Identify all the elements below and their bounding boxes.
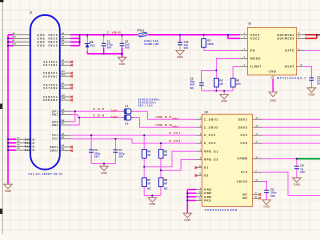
inductor L1 ferrite bead <box>124 109 131 114</box>
ground symbol U2 GND bus <box>183 213 191 218</box>
svg-text:C_VBUS: C_VBUS <box>107 31 121 35</box>
wire VCC2 branch <box>228 35 240 39</box>
svg-text:C_SBU2: C_SBU2 <box>204 125 218 129</box>
svg-text:USB_D_N: USB_D_N <box>156 123 173 127</box>
svg-text:PTC1: PTC1 <box>138 29 145 33</box>
resistor R5 <box>159 149 163 158</box>
junction dots DP DN <box>74 110 76 112</box>
svg-text:50V: 50V <box>119 154 124 158</box>
ground symbol under C6 C7 <box>100 166 108 171</box>
svg-text:GND: GND <box>263 204 269 208</box>
diode D1 zener <box>85 43 89 48</box>
wire C_CC1 <box>71 134 197 136</box>
svg-text:SBU2: SBU2 <box>50 151 59 153</box>
sheet border left <box>2 0 4 234</box>
svg-text:GND: GND <box>119 62 125 66</box>
svg-text:0.110R / 16V: 0.110R / 16V <box>144 42 159 46</box>
pin leads U2 left <box>196 119 202 175</box>
no-ERC x SSRXN2 <box>71 99 73 101</box>
svg-text:C_D_N: C_D_N <box>93 114 105 118</box>
wire GND bus left vertical <box>7 35 9 184</box>
svg-text:VPWR: VPWR <box>237 157 248 161</box>
wire DP2 riser <box>71 111 76 122</box>
wire SBU2 out <box>262 126 320 128</box>
connector J1 body <box>30 15 60 170</box>
wire Shield pin stubs J1 bottom-left <box>8 139 16 150</box>
svg-text:CC1: CC1 <box>241 133 248 137</box>
junction dots shield bus <box>7 138 9 140</box>
wire VPWR <box>262 158 297 160</box>
pin leads U1 right <box>297 35 305 67</box>
svg-text:50V: 50V <box>107 46 112 50</box>
svg-text:GND: GND <box>37 39 45 41</box>
pin lead U1 GND bottom <box>272 75 274 79</box>
svg-text:RPD_G2: RPD_G2 <box>204 157 219 161</box>
wire VBUS rail to PTC1 <box>71 34 138 36</box>
ground symbol shield bus <box>4 184 12 189</box>
svg-text:GND: GND <box>308 92 314 96</box>
svg-text:PAD: PAD <box>204 198 211 202</box>
svg-text:GND: GND <box>37 35 45 37</box>
wire CC2 out <box>262 142 320 144</box>
svg-text:600R@100MHz: 600R@100MHz <box>138 99 160 101</box>
diff pair marker USB_D_N <box>173 126 179 127</box>
pin leads U2 bottom-left GND PAD <box>196 190 202 201</box>
wire GND pin stubs J1 top-left <box>8 35 13 46</box>
svg-text:SSRXP1: SSRXP1 <box>43 73 58 75</box>
svg-text:DN2: DN2 <box>52 125 58 127</box>
ground symbol under C8 <box>293 178 301 183</box>
pin leads J1 SSTX2 SSRX2 pins <box>60 85 71 100</box>
wire C_D_N from DN1 through L2 <box>71 115 197 128</box>
svg-text:GND: GND <box>294 182 300 186</box>
svg-text:SSRXP2: SSRXP2 <box>43 97 58 99</box>
svg-text:CC1: CC1 <box>52 135 58 137</box>
wire GATE out <box>305 50 320 52</box>
wire C7 leads <box>115 139 117 164</box>
svg-text:0R: 0R <box>164 181 167 185</box>
svg-text:VBUS: VBUS <box>48 42 58 44</box>
junction dot R7 R8 gnd <box>151 195 153 197</box>
junction dot VPWR <box>296 158 298 160</box>
junction dots GND bus <box>7 37 9 39</box>
svg-text:GATE: GATE <box>285 49 295 53</box>
svg-text:SOURCE2: SOURCE2 <box>277 36 294 40</box>
svg-text:SSRXN2: SSRXN2 <box>43 100 58 102</box>
svg-text:DP2: DP2 <box>52 122 58 124</box>
svg-text:RPD_G1: RPD_G1 <box>204 149 219 153</box>
pin leads U1 left <box>240 35 248 67</box>
resistor R7 <box>142 178 146 187</box>
svg-text:D1: D1 <box>204 166 209 170</box>
svg-text:GND: GND <box>269 70 277 74</box>
pin leads J1 left GND pins <box>13 35 30 46</box>
capacitor C8 <box>294 166 299 168</box>
inductor L2 ferrite bead <box>124 115 131 120</box>
pin leads J1 right VBUS pins <box>60 35 71 46</box>
wire SBU1 out <box>262 118 320 120</box>
wire FLT route <box>262 172 320 195</box>
fuse PTC1 <box>137 32 148 37</box>
capacitor C5 <box>199 83 204 85</box>
svg-text:USB_D_P: USB_D_P <box>156 115 172 119</box>
svg-text:FLT: FLT <box>241 170 248 174</box>
wire C_CC2 <box>71 139 197 143</box>
svg-text:C_CC2: C_CC2 <box>204 141 216 145</box>
wire VBUS rail PTC1 to U1 VCC1 <box>148 34 240 36</box>
svg-text:NC: NC <box>190 86 194 90</box>
wire RPD_G1 <box>144 151 196 167</box>
junction dots VBUS tie <box>79 34 81 36</box>
svg-text:CC2: CC2 <box>241 141 248 145</box>
svg-text:VBUS: VBUS <box>48 35 58 37</box>
no-ERC x SSTXP1 <box>71 61 73 63</box>
pin leads L2 <box>121 117 134 119</box>
capacitor C1 <box>101 43 106 45</box>
svg-text:NC: NC <box>243 196 248 200</box>
svg-text:C_D_P: C_D_P <box>93 107 105 111</box>
svg-text:C_SBU1: C_SBU1 <box>204 117 218 121</box>
diff pair marker C_D_N <box>112 116 118 117</box>
svg-text:DN1: DN1 <box>52 115 58 117</box>
svg-text:300R@2GHz: 300R@2GHz <box>138 102 157 104</box>
ground symbol under C13 <box>176 50 184 55</box>
wire C_D_P from DP1 through L1 <box>71 111 197 119</box>
junction dots R2 R3 net <box>215 69 217 71</box>
no-ERC x SSTXN2 <box>71 87 73 89</box>
wire R8 leads <box>160 170 162 195</box>
wire R1 leads <box>203 35 205 51</box>
svg-text:SSTXP1: SSTXP1 <box>43 62 58 64</box>
wire C5 branch <box>202 70 217 90</box>
wire DN2 riser <box>71 118 80 125</box>
svg-text:DP1: DP1 <box>52 111 58 113</box>
no-ERC x SSRXP2 <box>71 96 73 98</box>
svg-text:C_CC1: C_CC1 <box>169 131 181 135</box>
svg-text:GND: GND <box>270 98 276 102</box>
wire R2 R3 bottoms to GND rail <box>202 87 234 94</box>
svg-text:VBUS: VBUS <box>48 39 58 41</box>
no-ERC x SSTXP2 <box>71 84 73 86</box>
svg-text:GND: GND <box>101 171 107 175</box>
wire C1 leads <box>103 35 105 37</box>
svg-text:50V: 50V <box>125 46 130 50</box>
svg-text:SBU1: SBU1 <box>238 117 248 121</box>
wire R1 to EN <box>204 49 240 51</box>
svg-text:EN: EN <box>250 48 255 52</box>
svg-text:SBU2: SBU2 <box>238 125 248 129</box>
wire R4 leads <box>143 135 145 167</box>
svg-text:GND: GND <box>184 218 190 222</box>
svg-text:SSTXN2: SSTXN2 <box>43 88 58 90</box>
svg-text:GND: GND <box>177 55 183 59</box>
svg-text:SBU1: SBU1 <box>50 147 59 149</box>
junction dot SOURCE red <box>316 34 318 36</box>
op-amp U2 body (port protector) <box>202 114 253 206</box>
wire R7 leads <box>143 167 145 196</box>
capacitor C2 <box>120 43 125 45</box>
svg-text:U1: U1 <box>248 22 252 26</box>
svg-text:GND: GND <box>5 189 11 193</box>
wire GND rail under D1 C1 C2 <box>87 54 122 57</box>
pin leads J1 CC SBU pins <box>60 135 71 150</box>
svg-text:MODE: MODE <box>250 56 261 60</box>
svg-text:0.75A / 1.5A: 0.75A / 1.5A <box>144 39 159 43</box>
ground symbol under R7 R8 <box>148 198 156 203</box>
svg-text:VCC2: VCC2 <box>250 36 260 40</box>
junction dots VBUS rail <box>86 34 88 36</box>
svg-text:50V: 50V <box>271 194 276 198</box>
op-amp U1 body (load switch) <box>248 28 297 76</box>
wire RPD_G2 <box>161 159 196 170</box>
no-ERC x U2 D1 <box>195 166 197 168</box>
svg-text:C_CC1: C_CC1 <box>204 133 216 137</box>
svg-text:TPD6S300ARUKR: TPD6S300ARUKR <box>205 209 238 212</box>
svg-text:0R: 0R <box>220 82 223 86</box>
wire R5 leads <box>160 143 162 170</box>
no-ERC x SSTXN1 <box>71 64 73 66</box>
pin leads J1 SSTX1 SSRX1 pins <box>60 62 71 76</box>
wire VBIAS to C9 <box>262 182 267 200</box>
no-ERC x SSRXP1 <box>71 72 73 74</box>
resistor R2 <box>214 78 218 87</box>
svg-text:50V: 50V <box>94 154 99 158</box>
svg-text:VBIAS: VBIAS <box>236 180 247 184</box>
wire C2 leads <box>121 35 123 37</box>
wire VPWR green out <box>297 158 320 160</box>
svg-text:GND: GND <box>37 46 45 48</box>
capacitor C13 <box>178 42 183 44</box>
svg-text:Shield: Shield <box>25 143 35 145</box>
wire MODE to R2 <box>216 58 240 78</box>
diff pair marker C_D_P <box>112 110 118 111</box>
svg-text:NC: NC <box>147 186 151 190</box>
svg-text:SSRXN1: SSRXN1 <box>43 76 58 78</box>
svg-text:6V5: 6V5 <box>90 44 95 48</box>
wire GND rail under C6 C7 <box>91 164 115 167</box>
wire DVDT to C3 <box>303 66 312 87</box>
capacitor C3 <box>309 78 314 80</box>
no-ERC x U2 NC1 <box>259 193 261 195</box>
svg-text:NC: NC <box>164 186 168 190</box>
svg-text:ILIMIT: ILIMIT <box>250 64 261 68</box>
wire U2 GND bus <box>187 190 196 214</box>
resistor R1 <box>202 39 206 48</box>
diff pair marker USB_D_P <box>173 118 179 119</box>
svg-text:SSTXP2: SSTXP2 <box>43 85 58 87</box>
resistor R4 <box>142 149 146 158</box>
svg-text:0R: 0R <box>147 181 150 185</box>
svg-text:0R: 0R <box>164 153 167 157</box>
capacitor C9 <box>264 190 269 192</box>
svg-text:GND: GND <box>149 202 155 206</box>
wire CC1 out <box>262 134 320 136</box>
no-ERC x SBU1 <box>71 146 73 148</box>
pin leads L1 <box>121 110 134 112</box>
svg-text:CC2: CC2 <box>52 139 58 141</box>
junction dots U2 gnd bus <box>186 192 188 194</box>
ground symbol under C2 <box>118 57 126 62</box>
wire C6 leads <box>90 135 92 163</box>
ground symbol under R2 R3 <box>220 94 228 99</box>
capacitor C6 <box>89 150 94 152</box>
ground symbol U1 GND pin <box>269 92 277 97</box>
svg-text:GND: GND <box>221 99 227 103</box>
wire GND rail under R7 R8 <box>144 196 161 198</box>
svg-text:U01-GF-16PMT-TR-67: U01-GF-16PMT-TR-67 <box>29 173 64 176</box>
svg-text:D2: D2 <box>204 174 209 178</box>
resistor R8 <box>159 178 163 187</box>
wire SOURCE1 SOURCE2 red <box>305 35 320 39</box>
svg-text:DVDT: DVDT <box>285 64 295 68</box>
junction dots RPD taps <box>143 166 145 168</box>
svg-text:25V: 25V <box>300 170 305 174</box>
resistor R3 <box>231 78 235 87</box>
junction dots C6 C7 gnd <box>103 163 105 165</box>
svg-text:1K5: 1K5 <box>236 82 241 86</box>
svg-text:MP5019HGQH-Z: MP5019HGQH-Z <box>277 78 307 80</box>
wire VBUS vertical tie right of J1 <box>71 35 80 46</box>
wire U1 GND pin down <box>272 79 274 92</box>
svg-text:200K: 200K <box>207 42 213 46</box>
capacitor C7 <box>113 150 118 152</box>
svg-text:Shield: Shield <box>25 147 35 149</box>
junction dots CC rails <box>90 134 92 136</box>
svg-text:C_CC2: C_CC2 <box>169 139 181 143</box>
svg-text:SSTXN1: SSTXN1 <box>43 65 58 67</box>
no-ERC x SBU2 <box>71 149 73 151</box>
svg-text:Shield: Shield <box>25 139 35 141</box>
wire C8 leads <box>296 159 298 178</box>
no-ERC x SSRXN1 <box>71 75 73 77</box>
wire D1 leads <box>86 35 88 54</box>
svg-text:50V: 50V <box>184 46 189 50</box>
no-ERC x U2 D2 <box>195 174 197 176</box>
svg-text:0R: 0R <box>147 153 150 157</box>
pin leads J1 DP DN pins <box>60 111 71 125</box>
pin leads U2 right <box>253 119 263 198</box>
ground symbol under C3 <box>307 88 315 93</box>
svg-text:U2: U2 <box>205 110 209 114</box>
svg-text:VBUS: VBUS <box>48 46 58 48</box>
svg-text:Shield: Shield <box>25 150 35 152</box>
svg-text:0R5 / 1A5: 0R5 / 1A5 <box>138 105 153 108</box>
wire ILIMIT to R3 <box>233 66 240 78</box>
ground symbol under C9 <box>262 200 270 205</box>
no-ERC x U2 NC2 <box>259 197 261 199</box>
pin leads J1 left Shield pins <box>16 139 30 150</box>
junction dots GND rail under caps <box>103 53 105 55</box>
svg-text:GND: GND <box>37 42 45 44</box>
wire C13 leads <box>179 35 181 43</box>
svg-text:D1: D1 <box>90 40 94 44</box>
